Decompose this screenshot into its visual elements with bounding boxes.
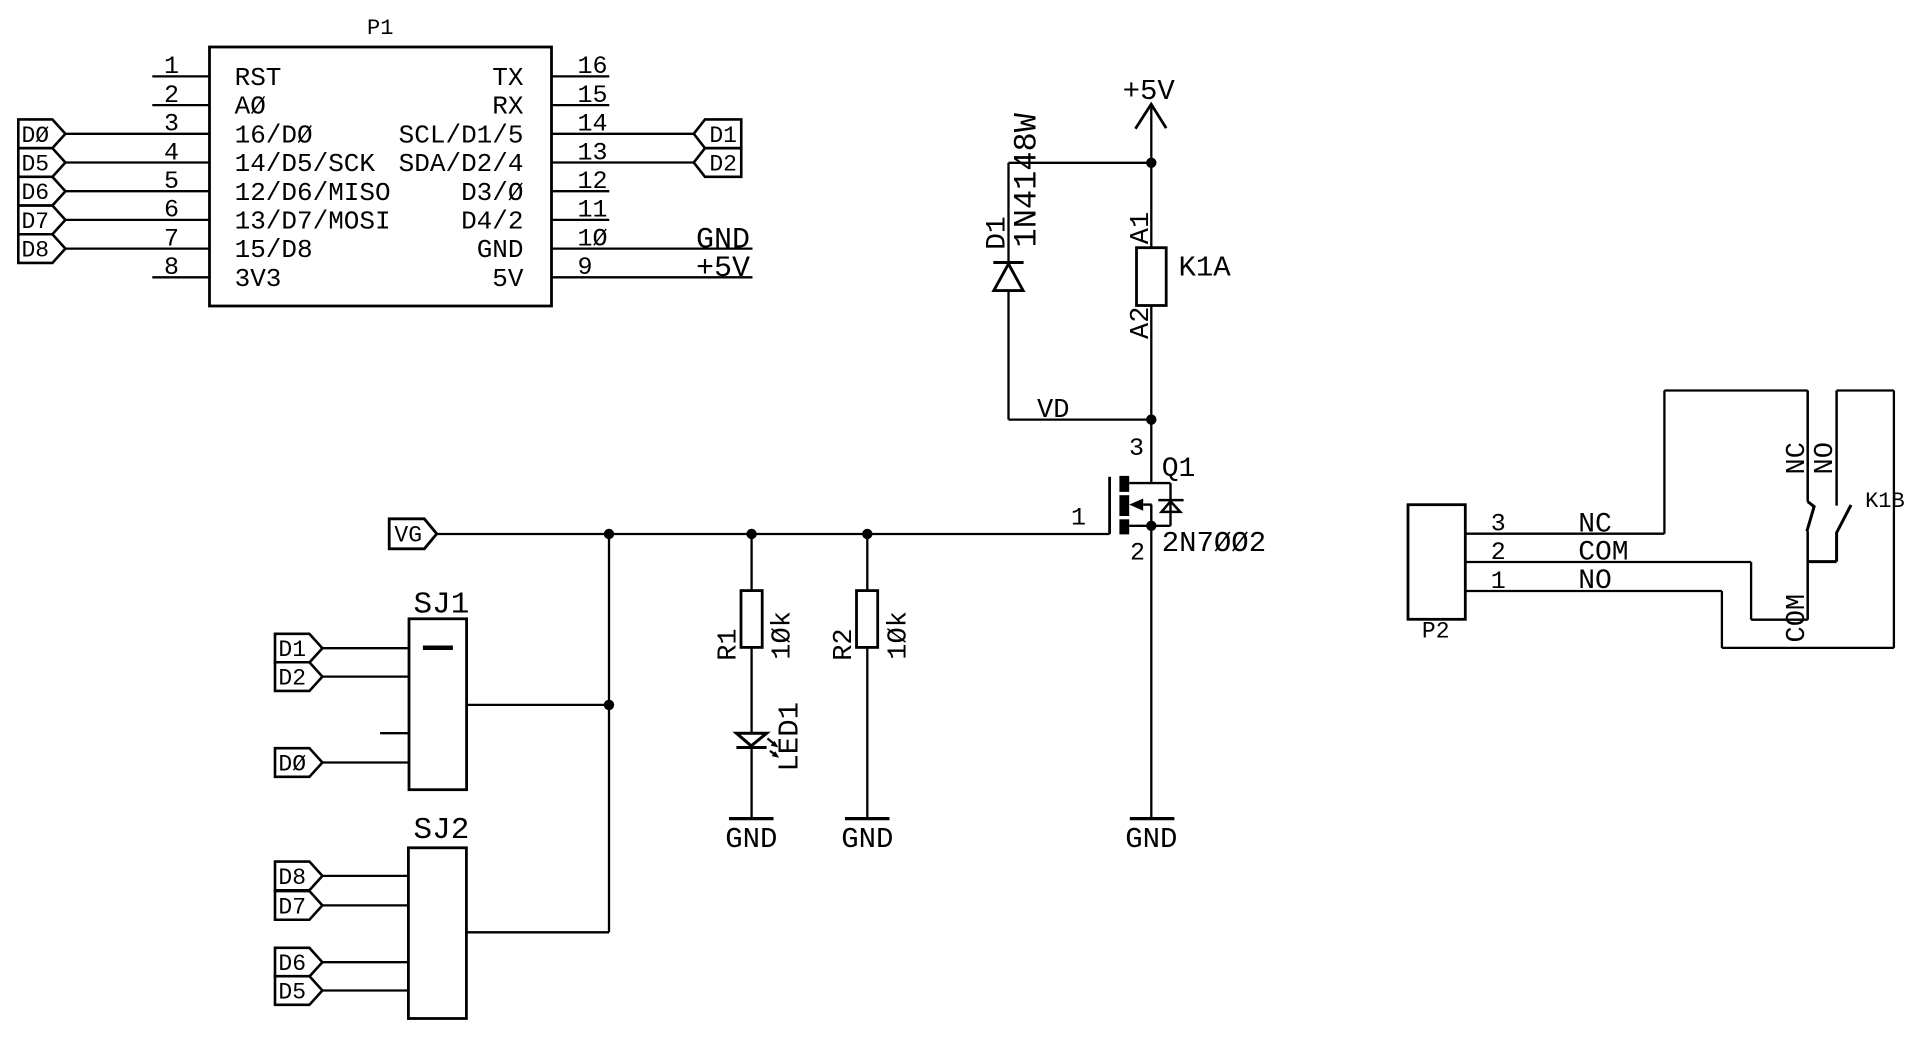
svg-text:D8: D8 — [21, 238, 49, 264]
svg-text:RST: RST — [235, 63, 282, 93]
svg-text:RX: RX — [492, 92, 524, 122]
svg-text:3: 3 — [1129, 434, 1144, 463]
svg-text:NO: NO — [1578, 566, 1612, 597]
svg-text:5V: 5V — [492, 264, 524, 294]
svg-text:1Ø: 1Ø — [578, 224, 608, 253]
svg-text:P1: P1 — [367, 16, 393, 41]
wire NO right riser — [1893, 391, 1895, 648]
wire LED1 to GND — [750, 748, 752, 819]
Q1 body diode branch — [1169, 483, 1171, 526]
svg-text:1: 1 — [1071, 504, 1086, 533]
SJ1 pin1 wire — [322, 647, 409, 649]
SJ2 pin1 wire — [322, 875, 408, 877]
svg-text:+5V: +5V — [1123, 75, 1176, 108]
Q1 source connect — [1129, 525, 1170, 527]
svg-text:3: 3 — [164, 110, 179, 139]
svg-text:3V3: 3V3 — [235, 264, 282, 294]
P1 pin 3 (16/D0) wire+number+name — [65, 110, 312, 151]
svg-text:DØ: DØ — [278, 752, 306, 778]
svg-text:12/D6/MISO: 12/D6/MISO — [235, 178, 391, 208]
junction dot SJ1 common — [604, 700, 614, 710]
net flag VG — [389, 519, 437, 549]
P1 pin 2 (A0) wire+number+name — [152, 81, 266, 122]
svg-text:2: 2 — [1130, 539, 1145, 568]
svg-text:GND: GND — [725, 823, 777, 856]
wire gate net to R2 — [866, 534, 868, 591]
net flag D6 (P1 left) — [18, 177, 65, 206]
wire NC top — [1664, 389, 1807, 391]
svg-text:13: 13 — [578, 138, 608, 167]
net label COM — [1578, 538, 1628, 569]
svg-text:D2: D2 — [709, 152, 737, 178]
P1 pin 6 (13/D7/MOSI) wire+number+name — [65, 196, 390, 237]
wire gate net to R1 — [750, 534, 752, 591]
svg-text:11: 11 — [578, 196, 608, 225]
P1 pin 16 (TX) wire+number+name — [492, 52, 609, 93]
relay coil K1A refdes label — [1179, 252, 1232, 285]
svg-text:SDA/D2/4: SDA/D2/4 — [399, 149, 524, 179]
net label NO — [1578, 566, 1612, 597]
wire COM bottom — [1751, 619, 1808, 621]
net flag D7 (SJ2) — [275, 891, 322, 920]
svg-text:D5: D5 — [278, 980, 306, 1006]
svg-text:1N4148W: 1N4148W — [1008, 112, 1045, 247]
svg-text:9: 9 — [578, 253, 593, 282]
pin label A2 (rotated) — [1127, 307, 1157, 339]
svg-text:GND: GND — [841, 823, 893, 856]
SJ1 pin2 wire — [322, 675, 409, 677]
svg-text:R1: R1 — [714, 628, 744, 660]
K1B NO blade — [1837, 505, 1851, 562]
svg-text:16: 16 — [578, 52, 608, 81]
svg-text:SCL/D1/5: SCL/D1/5 — [399, 120, 524, 150]
svg-text:8: 8 — [164, 253, 179, 282]
svg-text:5: 5 — [164, 167, 179, 196]
pin number 2 (Q1 source) — [1130, 539, 1145, 568]
wire NO top — [1837, 389, 1894, 391]
wire R2 to GND — [866, 647, 868, 818]
svg-text:NC: NC — [1578, 510, 1612, 541]
pin label COM (rotated) — [1783, 594, 1813, 643]
wire diode D1 bottom to VD node — [1009, 418, 1152, 420]
svg-text:13/D7/MOSI: 13/D7/MOSI — [235, 207, 391, 237]
svg-text:VG: VG — [394, 523, 422, 549]
Q1 refdes label — [1162, 454, 1196, 485]
LED1 symbol — [736, 733, 779, 758]
connector P2 outline — [1408, 505, 1465, 620]
net flag D5 (SJ2) — [275, 976, 322, 1005]
junction dot gate/R1 — [746, 529, 756, 539]
svg-text:TX: TX — [492, 63, 524, 93]
svg-text:1: 1 — [164, 52, 179, 81]
P1 pin 12 (D3/0) wire+number+name — [461, 167, 609, 208]
P1 pin 8 (3V3) wire+number+name — [152, 253, 281, 294]
pin label NO (rotated) — [1811, 442, 1841, 474]
svg-text:1Øk: 1Øk — [884, 611, 914, 660]
Q1 channel bar middle — [1119, 495, 1129, 516]
SJ1 common pin wire — [467, 704, 609, 706]
svg-text:+5V: +5V — [696, 252, 750, 286]
wire K1A pin A2 to VD node — [1150, 306, 1152, 420]
P1 pin 13 (SDA/D2/4) wire+number+name — [399, 138, 694, 179]
resistor R1 outline — [741, 591, 762, 648]
K1B NO stationary contact — [1835, 391, 1838, 506]
wire COM riser — [1750, 562, 1752, 620]
diode D1 symbol — [993, 163, 1023, 420]
svg-text:SJ1: SJ1 — [414, 588, 470, 623]
net flag D2 (SJ1) — [275, 662, 322, 691]
P1 pin 9 (5V) wire+number+name — [492, 253, 752, 294]
net flag D5 (P1 left) — [18, 148, 65, 177]
P2 pin 3 wire+number — [1465, 510, 1664, 539]
K1B blade crossbar — [1808, 560, 1837, 563]
connector P2 refdes — [1422, 618, 1450, 644]
P1 pin 7 (15/D8) wire+number+name — [65, 224, 312, 265]
svg-text:DØ: DØ — [21, 123, 49, 149]
svg-text:2: 2 — [164, 81, 179, 110]
pin label NC (rotated) — [1783, 442, 1813, 474]
P2 pin 2 wire+number — [1465, 538, 1751, 567]
svg-text:AØ: AØ — [235, 92, 266, 122]
junction dot gate/SJ riser — [604, 529, 614, 539]
SJ2 common pin wire — [466, 931, 609, 933]
svg-text:LED1: LED1 — [774, 702, 807, 772]
ground symbol (LED1) — [725, 819, 777, 856]
Q1 value 2N7002 — [1162, 527, 1266, 560]
svg-text:1: 1 — [1491, 567, 1506, 596]
Q1 drain wire — [1150, 420, 1152, 484]
SJ2 pin4 wire — [322, 989, 408, 991]
junction dot gate/R2 — [862, 529, 872, 539]
solder jumper SJ1 refdes — [414, 588, 470, 623]
svg-text:R2: R2 — [830, 628, 860, 660]
P1 pin 15 (RX) wire+number+name — [492, 81, 609, 122]
resistor R2 outline — [857, 591, 878, 648]
P1 pin 4 (14/D5/SCK) wire+number+name — [65, 138, 375, 179]
svg-text:D6: D6 — [278, 951, 306, 977]
net flag D8 (SJ2) — [275, 862, 322, 891]
wire NO bottom — [1722, 647, 1894, 649]
net label GND (P1 pin 10) — [696, 223, 750, 257]
Q1 channel bar top — [1119, 476, 1129, 492]
Q1 channel bar bottom — [1119, 519, 1129, 534]
Q1 source wire to GND — [1150, 526, 1152, 819]
LED1 refdes (rotated) — [774, 702, 807, 772]
Q1 bulk arrow — [1129, 499, 1152, 526]
Q1 body diode bar — [1158, 499, 1183, 502]
net flag D1 (P1 right) — [694, 119, 742, 148]
P1 pin 1 (RST) wire+number+name — [152, 52, 281, 93]
SJ1 pin3 stub — [380, 732, 409, 734]
K1B NC blade — [1807, 502, 1814, 532]
ground symbol (Q1 source) — [1125, 819, 1177, 856]
net label VD — [1037, 396, 1069, 426]
svg-text:COM: COM — [1578, 538, 1628, 569]
relay contact K1B refdes — [1865, 489, 1905, 514]
svg-text:14: 14 — [578, 110, 608, 139]
junction dot +5V node — [1146, 158, 1156, 168]
svg-text:D1: D1 — [278, 637, 306, 663]
+5V supply symbol — [1123, 75, 1176, 163]
svg-text:GND: GND — [1125, 823, 1177, 856]
net flag D7 (P1 left) — [18, 206, 65, 235]
Q1 drain connect — [1129, 482, 1170, 484]
net flag D0 (P1 left) — [18, 119, 65, 148]
SJ1 closed jumper bar — [423, 645, 453, 650]
svg-text:Q1: Q1 — [1162, 454, 1196, 485]
wire VG to Q1 gate — [437, 533, 1110, 535]
net flag D1 (SJ1) — [275, 634, 322, 663]
pin number 1 (Q1 gate) — [1071, 504, 1086, 533]
connector P1 outline — [210, 47, 552, 306]
connector P1 refdes label — [367, 16, 393, 41]
resistor R2 refdes (rotated) — [830, 628, 860, 660]
pin number 3 (Q1 drain) — [1129, 434, 1144, 463]
svg-text:6: 6 — [164, 196, 179, 225]
junction dot Q1 source node — [1146, 521, 1156, 531]
Q1 gate plate — [1108, 477, 1111, 534]
wire R1 to LED1 — [750, 647, 752, 733]
svg-text:D5: D5 — [21, 152, 49, 178]
svg-text:1Øk: 1Øk — [769, 611, 799, 660]
net label +5V (P1 pin 9) — [696, 252, 750, 286]
diode D1 refdes label (rotated) — [982, 216, 1013, 250]
svg-text:D2: D2 — [278, 666, 306, 692]
svg-text:P2: P2 — [1422, 618, 1450, 644]
svg-text:K1A: K1A — [1179, 252, 1232, 285]
P1 pin 5 (12/D6/MISO) wire+number+name — [65, 167, 390, 208]
SJ2 pin3 wire — [322, 961, 408, 963]
svg-text:15/D8: 15/D8 — [235, 235, 313, 265]
P1 pin 10 (GND) wire+number+name — [477, 224, 753, 265]
wire SJ riser (gate to SJ1/SJ2) — [608, 534, 610, 932]
svg-text:15: 15 — [578, 81, 608, 110]
svg-text:2: 2 — [1491, 538, 1506, 567]
solder jumper SJ2 refdes — [414, 813, 470, 848]
K1B NC stationary contact — [1806, 391, 1809, 502]
svg-text:NC: NC — [1783, 442, 1813, 474]
svg-text:D4/2: D4/2 — [461, 207, 523, 237]
svg-text:D6: D6 — [21, 180, 49, 206]
ground symbol (R2) — [841, 819, 893, 856]
SJ1 pin4 wire — [322, 761, 409, 763]
P1 pin 14 (SCL/D1/5) wire+number+name — [399, 110, 694, 151]
net flag D0 (SJ1) — [275, 748, 322, 777]
svg-text:14/D5/SCK: 14/D5/SCK — [235, 149, 376, 179]
SJ2 pin2 wire — [322, 904, 408, 906]
svg-text:4: 4 — [164, 138, 179, 167]
wire +5V node to diode D1 (top) — [1009, 162, 1152, 164]
svg-text:D7: D7 — [21, 209, 49, 235]
svg-text:D7: D7 — [278, 894, 306, 920]
svg-text:VD: VD — [1037, 396, 1069, 426]
svg-text:2N7ØØ2: 2N7ØØ2 — [1162, 527, 1266, 560]
P1 pin 11 (D4/2) wire+number+name — [461, 196, 609, 237]
wire +5V node to K1A pin A1 — [1150, 163, 1152, 248]
net label NC — [1578, 510, 1612, 541]
svg-text:K1B: K1B — [1865, 489, 1905, 514]
svg-text:12: 12 — [578, 167, 608, 196]
svg-text:SJ2: SJ2 — [414, 813, 470, 848]
K1B common column — [1806, 531, 1809, 619]
svg-text:D8: D8 — [278, 865, 306, 891]
net flag D2 (P1 right) — [694, 148, 742, 177]
relay coil K1A outline — [1137, 248, 1167, 306]
svg-text:COM: COM — [1783, 594, 1813, 643]
resistor R1 refdes (rotated) — [714, 628, 744, 660]
solder jumper SJ1 outline — [409, 619, 467, 790]
Q1 body diode triangle — [1162, 501, 1181, 512]
resistor R2 value 10k (rotated) — [884, 611, 914, 660]
svg-text:GND: GND — [477, 235, 524, 265]
junction dot VD node — [1146, 414, 1156, 424]
diode D1 value 1N4148W (rotated) — [1008, 112, 1045, 247]
solder jumper SJ2 outline — [408, 848, 466, 1019]
svg-text:NO: NO — [1811, 442, 1841, 474]
P2 pin 1 wire+number — [1465, 567, 1722, 596]
svg-text:7: 7 — [164, 224, 179, 253]
svg-text:16/DØ: 16/DØ — [235, 120, 313, 150]
wire P2 pin1 riser — [1721, 591, 1723, 648]
wire NC riser — [1663, 391, 1665, 534]
svg-text:A1: A1 — [1127, 212, 1157, 244]
net flag D8 (P1 left) — [18, 234, 65, 263]
svg-text:3: 3 — [1491, 510, 1506, 539]
pin label A1 (rotated) — [1127, 212, 1157, 244]
svg-text:D1: D1 — [709, 123, 737, 149]
resistor R1 value 10k (rotated) — [769, 611, 799, 660]
net flag D6 (SJ2) — [275, 948, 322, 977]
svg-text:D3/Ø: D3/Ø — [461, 178, 523, 208]
